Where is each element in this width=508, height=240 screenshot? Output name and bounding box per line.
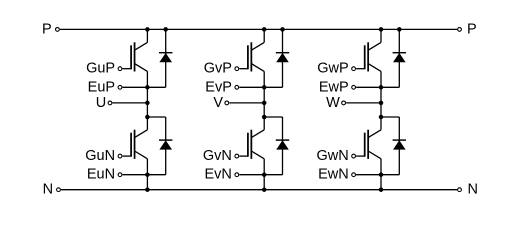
wire EuN emitter lead: [123, 174, 148, 176]
transistor IGBT WN (lower w-phase): [365, 117, 381, 175]
node junction EuN / diode DuN anode: [145, 172, 150, 177]
wire EwP emitter lead: [356, 86, 381, 88]
node junction lower-diode jog (u-phase): [145, 115, 150, 120]
wire GwP gate lead: [356, 68, 365, 70]
terminal EvN: [235, 173, 239, 177]
wire jog to diode DuN: [147, 116, 165, 118]
svg-text:GuP: GuP: [86, 61, 115, 77]
node junction EuP / phase column: [145, 85, 150, 90]
svg-text:N: N: [468, 182, 478, 198]
node junction EvP / phase column: [262, 85, 267, 90]
terminal GvP: [235, 67, 239, 71]
diode DvN (lower freewheel, v-phase): [264, 117, 289, 175]
svg-text:EvN: EvN: [204, 167, 231, 183]
node P left terminal: [56, 28, 60, 32]
diode DwP (upper freewheel, w-phase): [381, 29, 406, 87]
wire EuP emitter lead: [123, 86, 148, 88]
svg-text:U: U: [96, 95, 106, 111]
wire phase W column: [380, 87, 382, 117]
wire IGBT UN emitter to N rail: [146, 175, 148, 190]
wire phase U column: [146, 87, 148, 117]
transistor IGBT UP (upper u-phase): [131, 29, 147, 87]
terminal GwP: [352, 67, 356, 71]
node junction phase U output: [145, 101, 150, 106]
svg-text:EvP: EvP: [205, 79, 232, 95]
node junction N rail (u-phase): [145, 187, 150, 192]
wire N rail: [61, 189, 457, 191]
terminal EuN: [118, 173, 122, 177]
node junction P rail / diode DwP cathode: [397, 27, 402, 32]
transistor IGBT VN (lower v-phase): [248, 117, 264, 175]
svg-text:W: W: [326, 95, 340, 111]
svg-text:N: N: [43, 182, 53, 198]
node junction P rail / IGBT WP collector: [379, 27, 384, 32]
wire jog to diode DvN: [264, 116, 282, 118]
node N left terminal: [57, 188, 61, 192]
wire phase U output lead: [113, 102, 148, 104]
transistor IGBT VP (upper v-phase): [248, 29, 264, 87]
transistor IGBT UN (lower u-phase): [131, 117, 147, 175]
terminal W: [342, 101, 346, 105]
node junction lower-diode jog (v-phase): [262, 115, 267, 120]
svg-text:GwN: GwN: [316, 148, 348, 164]
node N right terminal: [458, 188, 462, 192]
wire phase V column: [263, 87, 265, 117]
node junction EwP / phase column: [379, 85, 384, 90]
node junction N rail (v-phase): [262, 187, 267, 192]
node junction P rail / diode DvP cathode: [280, 27, 285, 32]
svg-text:GvP: GvP: [204, 61, 232, 77]
wire GwN gate lead: [356, 155, 365, 157]
svg-text:GvN: GvN: [203, 148, 232, 164]
wire P rail: [60, 28, 457, 30]
node junction N rail (w-phase): [379, 187, 384, 192]
diode DvP (upper freewheel, v-phase): [264, 29, 289, 87]
svg-text:GwP: GwP: [317, 61, 348, 77]
node junction lower-diode jog (w-phase): [379, 115, 384, 120]
diode DuP (upper freewheel, u-phase): [147, 29, 172, 87]
node junction P rail / IGBT VP collector: [262, 27, 267, 32]
terminal GwN: [352, 154, 356, 158]
node junction P rail / diode DuP cathode: [163, 27, 168, 32]
node P right terminal: [458, 28, 462, 32]
node junction P rail / IGBT UP collector: [145, 27, 150, 32]
diode DwN (lower freewheel, w-phase): [381, 117, 406, 175]
svg-text:EuP: EuP: [88, 79, 115, 95]
node junction EwN / diode DwN anode: [379, 172, 384, 177]
svg-text:P: P: [42, 21, 52, 37]
wire GuN gate lead: [123, 155, 132, 157]
diode DuN (lower freewheel, u-phase): [147, 117, 172, 175]
svg-text:EwP: EwP: [319, 79, 349, 95]
terminal EwP: [352, 85, 356, 89]
svg-text:GuN: GuN: [85, 148, 115, 164]
wire GuP gate lead: [123, 68, 132, 70]
node junction phase V output: [262, 101, 267, 106]
wire GvP gate lead: [239, 68, 248, 70]
wire EvN emitter lead: [239, 174, 264, 176]
node junction phase W output: [379, 101, 384, 106]
terminal GvN: [235, 154, 239, 158]
wire phase W output lead: [346, 102, 381, 104]
terminal EwN: [352, 173, 356, 177]
terminal GuP: [118, 67, 122, 71]
wire EvP emitter lead: [239, 86, 264, 88]
wire GvN gate lead: [239, 155, 248, 157]
node junction EvN / diode DvN anode: [262, 172, 267, 177]
terminal GuN: [118, 154, 122, 158]
terminal U: [108, 101, 112, 105]
terminal V: [225, 101, 229, 105]
svg-text:EwN: EwN: [318, 167, 349, 183]
terminal EvP: [235, 85, 239, 89]
transistor IGBT WP (upper w-phase): [365, 29, 381, 87]
wire IGBT VN emitter to N rail: [263, 175, 265, 190]
svg-text:EuN: EuN: [87, 167, 115, 183]
wire jog to diode DwN: [381, 116, 399, 118]
terminal EuP: [118, 85, 122, 89]
svg-text:V: V: [213, 95, 223, 111]
wire IGBT WN emitter to N rail: [380, 175, 382, 190]
svg-text:P: P: [467, 21, 477, 37]
wire EwN emitter lead: [356, 174, 381, 176]
wire phase V output lead: [229, 102, 264, 104]
